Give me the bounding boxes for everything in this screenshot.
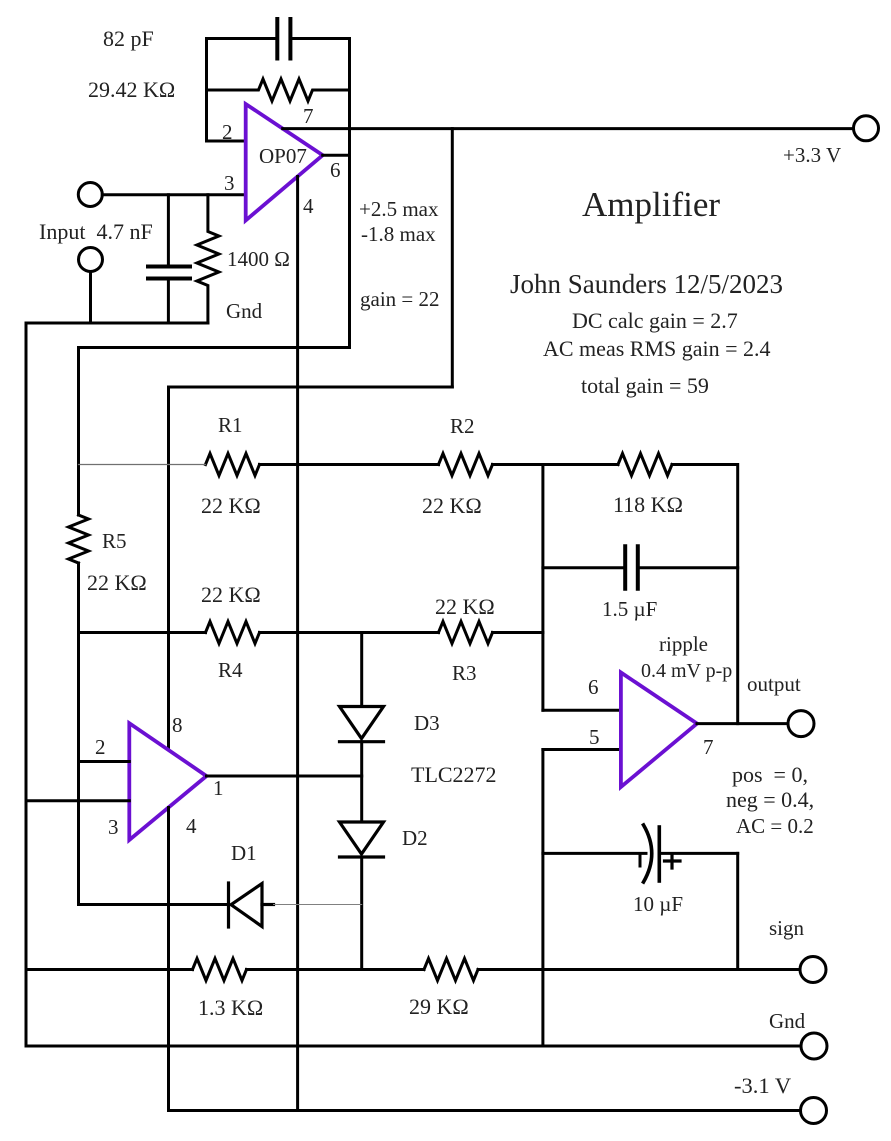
- svg-text:22 KΩ: 22 KΩ: [87, 570, 147, 595]
- svg-text:TLC2272: TLC2272: [411, 762, 497, 787]
- svg-text:Gnd: Gnd: [769, 1009, 806, 1033]
- wire: D1 anode row: [79, 903, 229, 906]
- svg-text:pos = 0,: pos = 0,: [732, 762, 808, 787]
- terminal circle: Input lower: [79, 248, 103, 272]
- svg-text:22 KΩ: 22 KΩ: [422, 493, 482, 518]
- diode D3: [340, 707, 384, 742]
- svg-text:gain = 22: gain = 22: [360, 287, 440, 311]
- wire: U3 pin 6: [543, 709, 621, 712]
- svg-text:4: 4: [186, 814, 197, 838]
- svg-text:29.42 KΩ: 29.42 KΩ: [88, 77, 175, 102]
- terminal circle: Input upper: [78, 183, 102, 207]
- svg-text:2: 2: [222, 120, 233, 144]
- svg-text:ripple: ripple: [659, 632, 708, 656]
- wire: lower input terminal stub: [89, 272, 92, 324]
- wire: bottom row left lead: [26, 968, 193, 971]
- svg-text:6: 6: [330, 158, 341, 182]
- resistor R2 22 KΩ: [439, 454, 493, 476]
- svg-text:82 pF: 82 pF: [103, 26, 154, 51]
- svg-text:6: 6: [588, 675, 599, 699]
- wire: +3.3V branch vertical x=452: [451, 129, 454, 387]
- svg-text:output: output: [747, 672, 801, 696]
- wire: pin 3 input from Input terminal: [102, 193, 245, 196]
- capacitor 1.5 µF: [543, 546, 738, 588]
- wire: left rail x=26 down to Gnd row: [25, 323, 28, 1046]
- resistor 1.3 KΩ: [193, 959, 247, 981]
- wire: V+ rail x=168.5 down to U2 pin 8: [167, 387, 170, 749]
- svg-text:R4: R4: [218, 658, 243, 682]
- svg-text:D2: D2: [402, 826, 428, 850]
- svg-text:Gnd: Gnd: [226, 299, 263, 323]
- resistor R3 22 KΩ: [439, 622, 493, 644]
- terminal circle: Gnd: [801, 1033, 827, 1059]
- wire: left rail x=78.5 lower segment R5 to D1 row: [77, 563, 80, 905]
- svg-text:sign: sign: [769, 916, 805, 940]
- wire: -3.1V row: [169, 1109, 801, 1112]
- terminal circle: +3.3 V: [854, 116, 879, 141]
- svg-text:22 KΩ: 22 KΩ: [201, 493, 261, 518]
- svg-text:10 µF: 10 µF: [633, 892, 683, 916]
- terminal circle: sign: [800, 957, 826, 983]
- svg-text:118 KΩ: 118 KΩ: [613, 492, 683, 517]
- wire: input ground row: [26, 322, 208, 325]
- terminal circle: -3.1 V: [801, 1098, 827, 1124]
- wire: bottom row between resistors: [247, 968, 425, 971]
- wire: U3 output pin 7 to output terminal: [697, 722, 788, 725]
- svg-text:D1: D1: [231, 841, 257, 865]
- wire: row y=632.5 R4 to R3: [260, 631, 439, 634]
- wire: row y=464.5 R1 to R2: [260, 463, 439, 466]
- svg-text:R1: R1: [218, 413, 243, 437]
- wire: U1 output pin 6: [323, 154, 350, 157]
- svg-text:DC calc gain = 2.7: DC calc gain = 2.7: [572, 308, 738, 333]
- wire: pin 2 input to op-amp: [207, 140, 246, 143]
- resistor 29 KΩ: [424, 959, 478, 981]
- svg-text:AC = 0.2: AC = 0.2: [736, 814, 814, 838]
- wire: thin link D1 to diode chain: [274, 904, 362, 906]
- resistor 29.42 KΩ feedback: [207, 79, 350, 101]
- wire: pin 7 +3.3V rail to terminal: [283, 127, 854, 130]
- wire: right rail x=737.7 cap to sign row: [736, 853, 739, 969]
- svg-text:5: 5: [589, 725, 600, 749]
- wire: pin 4 vertical rail of U1 down to -3.1V row: [296, 177, 299, 1111]
- wire: bottom row to sign terminal: [478, 968, 800, 971]
- wire: left rail x=78.5 upper segment to R5: [77, 348, 80, 516]
- diode D2: [340, 822, 384, 857]
- wire: row y=632.5 R3 to mid rail: [493, 631, 543, 634]
- op-amp U3 TLC2272 B: [621, 673, 697, 788]
- svg-text:-3.1 V: -3.1 V: [734, 1073, 791, 1098]
- capacitor C1 82 pF: [277, 19, 290, 59]
- wire: mid rail x=542.9 from row 464.5 to pin 6: [541, 465, 544, 711]
- resistor R4 22 KΩ: [206, 622, 260, 644]
- svg-text:22 KΩ: 22 KΩ: [201, 582, 261, 607]
- wire: U3 pin 5: [543, 748, 621, 751]
- wire: diode chain between D3 and D2: [360, 742, 363, 822]
- wire: 118K right lead and right rail down to output row: [672, 465, 738, 724]
- svg-text:neg = 0.4,: neg = 0.4,: [726, 787, 814, 812]
- svg-text:+2.5 max: +2.5 max: [359, 197, 439, 221]
- svg-text:3: 3: [224, 171, 235, 195]
- resistor 118 KΩ: [618, 454, 672, 476]
- resistor R1 22 KΩ: [206, 454, 260, 476]
- svg-text:0.4 mV p-p: 0.4 mV p-p: [641, 660, 732, 682]
- svg-text:Amplifier: Amplifier: [582, 185, 720, 224]
- svg-text:+3.3 V: +3.3 V: [783, 143, 841, 167]
- wire: U2 output pin 1 row: [207, 775, 362, 778]
- resistor R5 22 KΩ: [69, 515, 89, 563]
- svg-text:7: 7: [303, 104, 314, 128]
- wire: OP07 feedback loop top-left segment: [207, 39, 276, 142]
- svg-text:Input 4.7 nF: Input 4.7 nF: [39, 219, 153, 244]
- wire: row y=347 from x=78.5 to OP07 loop: [79, 346, 350, 349]
- capacitor C2 4.7 nF: [148, 195, 190, 323]
- svg-text:29 KΩ: 29 KΩ: [409, 994, 469, 1019]
- wire: diode chain below D2 to bottom row: [360, 857, 363, 970]
- svg-text:7: 7: [703, 735, 714, 759]
- svg-text:John Saunders 12/5/2023: John Saunders 12/5/2023: [510, 269, 783, 299]
- svg-text:1: 1: [213, 776, 224, 800]
- svg-text:R5: R5: [102, 529, 127, 553]
- wire: U2 pin 4 rail down to -3.1V row: [167, 808, 170, 1111]
- svg-text:D3: D3: [414, 711, 440, 735]
- wire: row y=632.5 left lead to R4: [79, 631, 206, 634]
- svg-text:1.3 KΩ: 1.3 KΩ: [198, 995, 263, 1020]
- svg-text:AC meas RMS gain = 2.4: AC meas RMS gain = 2.4: [543, 336, 771, 361]
- capacitor 10 µF polarized: [543, 825, 738, 882]
- resistor 1400 Ω: [197, 195, 219, 323]
- diode D1: [229, 883, 274, 927]
- wire: thin R1 left lead: [79, 464, 206, 466]
- wire: row y=387: [169, 386, 453, 389]
- svg-text:1.5 µF: 1.5 µF: [602, 597, 657, 621]
- svg-text:total gain = 59: total gain = 59: [581, 373, 709, 398]
- op-amp U1 OP07: [246, 104, 323, 220]
- svg-text:OP07: OP07: [259, 144, 307, 168]
- svg-text:R2: R2: [450, 414, 475, 438]
- svg-text:2: 2: [95, 735, 106, 759]
- wire: feedback loop top-right segment: [292, 39, 349, 348]
- op-amp U2 TLC2272 A: [129, 723, 206, 840]
- svg-text:3: 3: [108, 815, 119, 839]
- wire: pin5 rail x=542.9 down to Gnd row: [541, 750, 544, 1047]
- svg-text:R3: R3: [452, 661, 477, 685]
- wire: diode chain vertical upper lead: [360, 633, 363, 707]
- wire: U2 pin 3: [26, 799, 129, 802]
- svg-text:22 KΩ: 22 KΩ: [435, 594, 495, 619]
- wire: row y=464.5 R2 to 118K: [493, 463, 619, 466]
- wire: Gnd row: [26, 1045, 801, 1048]
- terminal circle: output: [788, 711, 814, 737]
- svg-text:-1.8 max: -1.8 max: [361, 222, 436, 246]
- svg-text:1400 Ω: 1400 Ω: [227, 247, 290, 271]
- wire: U2 pin 2: [79, 760, 130, 763]
- svg-text:8: 8: [172, 713, 183, 737]
- svg-text:4: 4: [303, 194, 314, 218]
